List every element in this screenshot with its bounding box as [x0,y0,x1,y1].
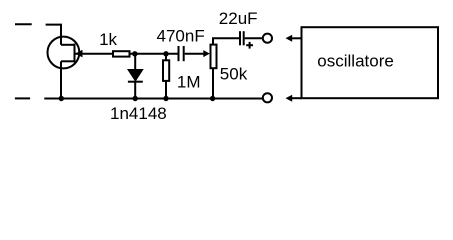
terminal circle bottom output [263,93,272,102]
capacitor C1 470nF right plate [183,46,185,61]
svg-text:22uF: 22uF [219,9,258,28]
capacitor C2 plus sign vertical [249,42,251,49]
svg-text:oscillatore: oscillatore [317,51,394,70]
node source junction [59,96,64,101]
terminal circle top output [263,34,272,43]
wire gate [76,53,113,55]
capacitor C2 22uF right plate [243,31,245,45]
potentiometer RV1 50k body [211,45,217,69]
potentiometer RV1 top lead elbow [213,38,239,44]
svg-text:1k: 1k [99,30,117,49]
svg-text:50k: 50k [220,65,248,84]
wire arrow tail from oscillatore bottom [291,97,302,99]
capacitor C1 470nF left plate [178,46,180,61]
diode D1 cathode bar [128,81,143,83]
arrow into bottom terminal [286,95,293,102]
diode D1 triangle [128,70,143,81]
wire C2 to top terminal [245,37,263,39]
oscillatore box [302,27,439,98]
wire R1 to C1 [130,53,178,55]
node R2 junction [163,96,168,101]
transistor Q1 channel bar [74,44,76,63]
transistor Q1 JFET body circle [48,37,80,69]
svg-text:470nF: 470nF [157,26,205,45]
wire C1 to wiper arrow [185,53,204,55]
diode D1 anode lead [134,54,136,70]
transistor Q1 source stub [61,60,75,62]
resistor R2 1M top lead [165,54,167,61]
node junction at R2 tap [163,51,168,56]
arrow into top terminal [286,35,293,42]
transistor Q1 drain stub [61,44,75,46]
wire bottom rail [44,98,263,100]
transistor Q1 gate arrowhead [75,50,82,58]
resistor R2 1M body [163,60,169,81]
node RV1 junction [210,96,215,101]
capacitor C2 22uF left plate [239,31,241,45]
wire source lead [60,61,62,98]
svg-text:1n4148: 1n4148 [110,104,167,123]
resistor R1 1k body [113,51,130,56]
potentiometer RV1 wiper arrowhead [203,50,210,57]
node diode junction [133,96,138,101]
potentiometer RV1 bottom lead [212,68,214,98]
wire bottom-left continuation dash [15,97,30,99]
node junction after R1 [132,51,137,56]
capacitor C2 plus sign horizontal [246,44,253,46]
wire top-left continuation dash [15,23,32,25]
svg-text:1M: 1M [177,73,201,92]
diode D1 cathode lead [134,82,136,99]
wire drain top elbow [46,25,61,45]
resistor R2 1M bottom lead [165,81,167,99]
wire arrow tail from oscillatore top [291,37,302,39]
